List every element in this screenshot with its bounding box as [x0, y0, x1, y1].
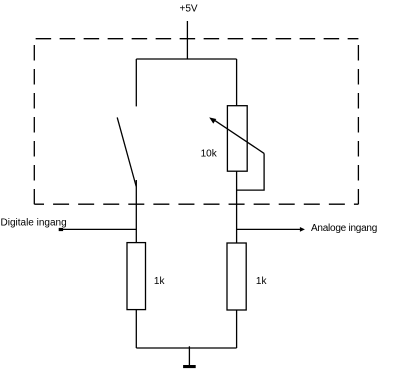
wire branch to potentiometer top — [236, 59, 238, 106]
wire +5V to branch node — [186, 21, 188, 59]
wire switch to digital node — [135, 180, 137, 243]
wire pot bottom to analog node — [236, 171, 238, 243]
resistor R1 1k body — [127, 243, 146, 310]
svg-text:+5V: +5V — [180, 4, 198, 15]
analog input arrowhead — [300, 227, 305, 232]
ground — [183, 365, 196, 368]
switch S1 — [117, 117, 136, 186]
potentiometer 10k body — [227, 106, 247, 172]
wire R1 bottom — [135, 310, 137, 348]
potentiometer wiper arrowhead — [209, 117, 216, 123]
dashed enclosure box top edge — [34, 38, 358, 40]
svg-text:Digitale ingang: Digitale ingang — [1, 218, 67, 229]
digital input wire — [61, 228, 136, 230]
bottom wire joining resistors — [136, 347, 236, 349]
wire R2 bottom — [236, 310, 238, 348]
analog input wire — [237, 228, 300, 230]
svg-text:1k: 1k — [154, 276, 166, 287]
dashed enclosure box left edge — [33, 39, 35, 205]
svg-text:Analoge ingang: Analoge ingang — [311, 223, 377, 234]
potentiometer wiper arrow — [214, 120, 264, 154]
wire wiper to pot bottom — [237, 153, 265, 190]
wire branch horizontal — [136, 58, 236, 60]
wire branch to switch top — [135, 59, 137, 106]
wire to ground — [188, 346, 190, 365]
svg-text:10k: 10k — [201, 148, 218, 159]
dashed enclosure box right edge — [357, 39, 359, 205]
svg-text:1k: 1k — [256, 276, 268, 287]
resistor R2 1k body — [227, 243, 246, 310]
digital input terminal square — [59, 228, 63, 231]
dashed enclosure box bottom edge — [34, 203, 358, 205]
